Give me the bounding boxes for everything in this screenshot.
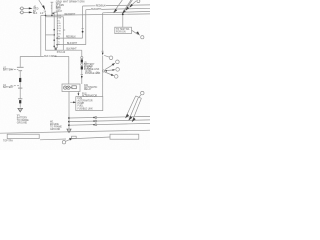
legend box top right [115, 27, 132, 33]
junction dot [45, 15, 47, 17]
svg-text:BLK: BLK [33, 13, 38, 15]
junction dot [51, 15, 53, 17]
relay box [62, 84, 80, 92]
connector at cable top [136, 96, 142, 98]
svg-text:BLK/WHT: BLK/WHT [91, 9, 102, 11]
legend table bottom (fuse list) [76, 97, 103, 111]
svg-text:RED/BLK: RED/BLK [66, 37, 76, 39]
lever lines w arrows [105, 65, 113, 70]
svg-text:GRAY: GRAY [56, 10, 63, 13]
svg-text:TO TEST BA: TO TEST BA [116, 28, 130, 31]
connector circle A (top left upper) [21, 7, 24, 10]
svg-text:RELAY: RELAY [84, 88, 92, 91]
inline connector symbols [95, 117, 97, 119]
connector pin labels [57, 15, 61, 46]
arrow from legend to circle [132, 30, 138, 34]
wire from circle B [23, 11, 29, 13]
wire BLK/WHT tap [57, 44, 86, 46]
svg-text:TOP TRA: TOP TRA [3, 139, 13, 142]
bottom left box [7, 134, 39, 138]
svg-text:BATTERY: BATTERY [3, 86, 14, 89]
arrowhead down on wire3 [102, 53, 104, 56]
svg-text:FUSIBLE LINK: FUSIBLE LINK [78, 109, 94, 111]
arrowhead B [29, 11, 33, 13]
connector strip (ignition switch pins) [52, 13, 54, 15]
three wires to right [69, 116, 150, 118]
switch cluster mid right [104, 55, 109, 57]
wire 3 vertical to switch [102, 13, 104, 53]
vertical through pivot [102, 56, 104, 97]
wire from circle A [23, 7, 29, 9]
svg-text:RED/WHT: RED/WHT [65, 14, 76, 16]
wire RED/BLK tap [57, 37, 82, 39]
diagonal cable bottom right [126, 96, 136, 118]
svg-text:GROUND: GROUND [50, 129, 61, 131]
svg-text:8 R: 8 R [57, 33, 61, 35]
ground arrow battery [18, 108, 23, 112]
pointer arrow to legend [70, 101, 73, 103]
vertical feed above connector [51, 2, 53, 15]
text layer [3, 1, 130, 143]
svg-text:BLK CABLE: BLK CABLE [44, 55, 57, 58]
svg-text:BATTERY: BATTERY [3, 68, 14, 71]
diagonal arrow into node at top left center [39, 0, 44, 8]
wire RED/BLK top run [83, 5, 96, 7]
bottom right box [110, 134, 139, 139]
junction dot on riser [82, 31, 84, 33]
bottom long line 1 [0, 130, 150, 133]
top tick [51, 1, 54, 3]
svg-text:BLK/WHT: BLK/WHT [67, 43, 78, 45]
wire 3 top run [103, 11, 150, 12]
vertical drop at x=40.8 [40, 15, 42, 56]
svg-text:ALTERNATOR: ALTERNATOR [82, 94, 97, 97]
svg-text:P/N 140: P/N 140 [57, 52, 66, 54]
svg-text:BLK/WHT: BLK/WHT [67, 49, 78, 51]
svg-text:FOR IGN: FOR IGN [116, 32, 126, 34]
right edge drop to relay [68, 56, 70, 84]
connector circle B (top left lower) [21, 11, 24, 14]
fusible link chain [81, 50, 83, 56]
ignition switch outer box [46, 17, 64, 50]
bottom long line 2 [40, 138, 66, 141]
wire RED/BLK vertical riser [82, 6, 84, 38]
ground arrow [67, 129, 71, 133]
diagonal cable top right [113, 0, 122, 13]
svg-text:FUEL: FUEL [78, 106, 85, 108]
svg-text:GROUND: GROUND [17, 123, 28, 125]
wire from connector bottom (BLK/WHT lower) [64, 49, 82, 51]
wire BLK/WHT vertical riser [85, 10, 87, 45]
below relay: down arrow right side [77, 92, 79, 94]
tick on riser [82, 28, 84, 30]
wire BLK/WHT top run [86, 9, 91, 11]
battery chain left [19, 56, 21, 67]
tick [51, 5, 52, 7]
paper noise [0, 0, 150, 150]
circle-arrow symbol [62, 141, 65, 144]
svg-text:WHT GRN: WHT GRN [74, 1, 85, 3]
strip pin dots [53, 29, 55, 31]
tick [51, 7, 52, 9]
wire RED/WHT main horizontal [41, 14, 150, 16]
main ground wire below relay [68, 92, 70, 129]
BLK CABLE run to left [20, 55, 44, 57]
arrowhead A [29, 7, 33, 9]
tick on wire3 [101, 50, 103, 52]
svg-text:RED/BLK: RED/BLK [96, 6, 106, 8]
vertical drop x=45.5 (ignition box left edge feed) [45, 15, 47, 16]
